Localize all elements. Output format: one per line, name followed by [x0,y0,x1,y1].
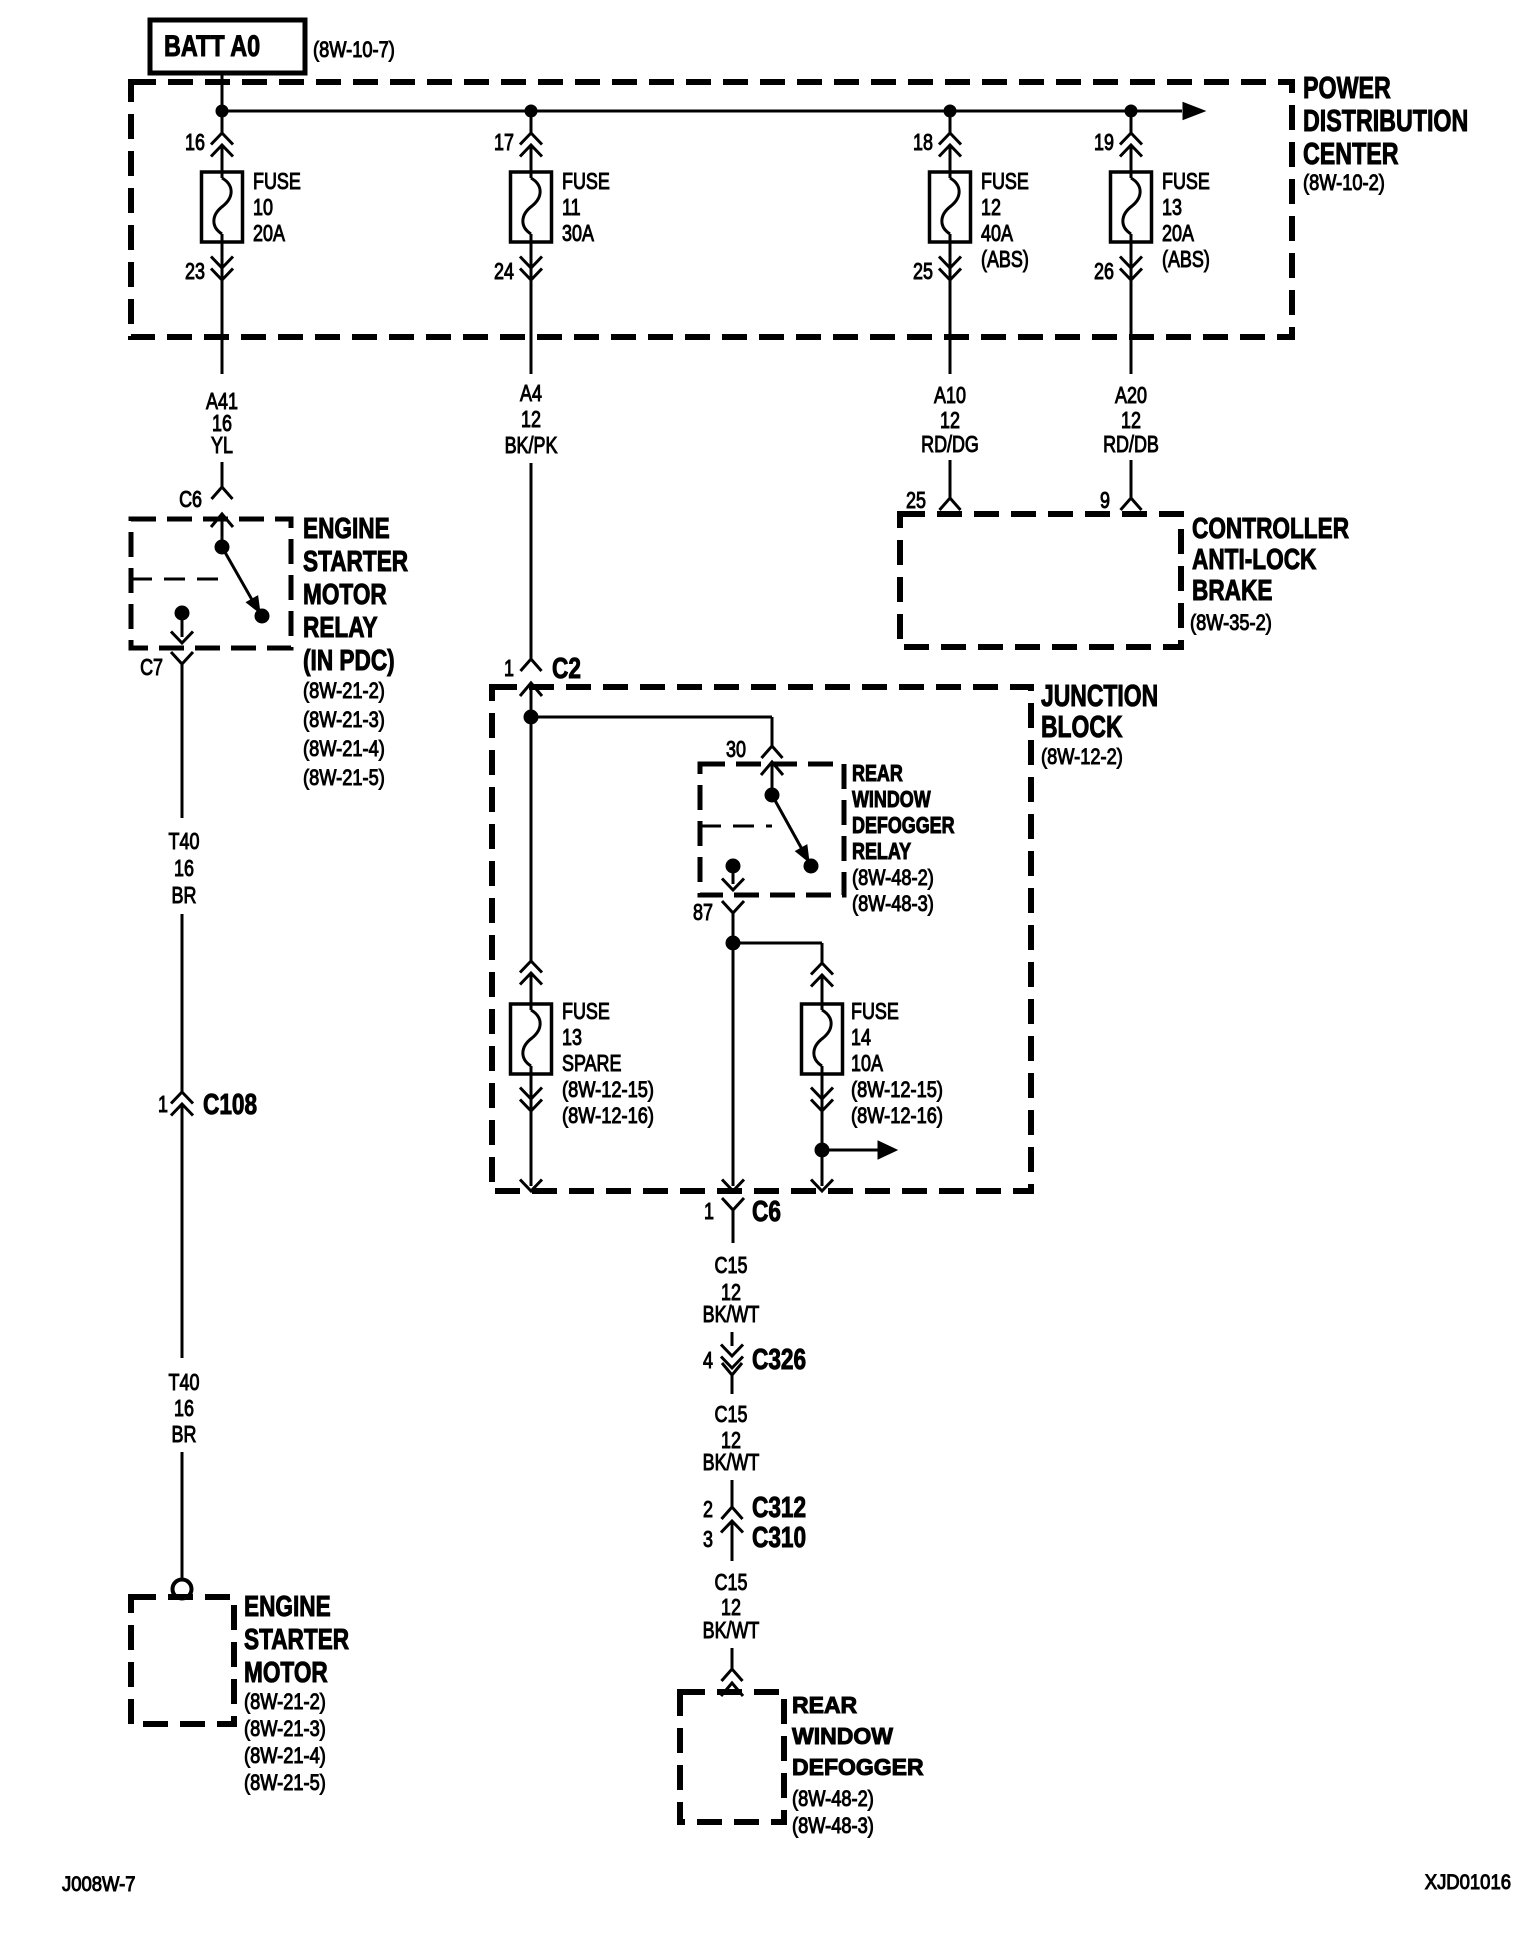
defogger relay switch arm [772,795,809,862]
svg-text:BK/WT: BK/WT [703,1302,760,1328]
svg-text:(8W-35-2): (8W-35-2) [1190,612,1272,636]
svg-text:(8W-12-15): (8W-12-15) [851,1079,943,1103]
fuse 13 (20A) column [1094,111,1210,374]
label engine starter motor relay [303,511,408,790]
svg-text:25: 25 [913,259,933,285]
junction block box [492,678,1158,1191]
wire label C15 12 BK/WT (2) [703,1402,760,1476]
svg-text:(8W-21-4): (8W-21-4) [303,738,385,762]
ring terminal at engine starter motor [173,1580,192,1599]
svg-text:DEFOGGER: DEFOGGER [852,813,955,839]
svg-text:BR: BR [172,1422,197,1448]
svg-text:(ABS): (ABS) [1162,247,1210,273]
svg-text:(8W-48-3): (8W-48-3) [792,1815,874,1839]
relay output wire to C7 [171,613,193,643]
label rear window defogger [792,1692,924,1838]
svg-text:(8W-48-3): (8W-48-3) [852,893,934,917]
svg-text:ENGINE: ENGINE [303,511,390,544]
wire label T40 16 BR (lower) [169,1370,200,1448]
svg-text:BRAKE: BRAKE [1192,573,1272,606]
wire arrow to other circuits [822,1141,897,1159]
svg-text:11: 11 [562,195,581,221]
power distribution center box [131,70,1468,337]
svg-text:BLOCK: BLOCK [1041,709,1123,744]
node fuse 14 output branch [815,1143,829,1157]
svg-text:30: 30 [726,737,746,763]
node BATT A0 [150,20,395,73]
svg-text:(8W-10-2): (8W-10-2) [1303,172,1385,196]
svg-text:C6: C6 [752,1194,781,1227]
svg-text:(ABS): (ABS) [981,247,1029,273]
connector C312 / C310 [703,1480,806,1561]
svg-text:REAR: REAR [852,761,903,787]
svg-text:20A: 20A [253,221,285,247]
svg-text:J008W-7: J008W-7 [62,1873,136,1896]
svg-text:18: 18 [913,130,933,156]
defogger relay contact node [804,859,818,873]
svg-text:BK/WT: BK/WT [703,1618,760,1644]
svg-text:1: 1 [158,1092,168,1118]
engine starter motor box [131,1597,234,1724]
svg-text:87: 87 [693,900,713,926]
svg-text:(8W-21-5): (8W-21-5) [303,767,385,791]
svg-text:14: 14 [851,1025,871,1051]
svg-text:MOTOR: MOTOR [303,577,387,610]
svg-text:XJD01016: XJD01016 [1425,1871,1511,1894]
svg-text:WINDOW: WINDOW [852,787,931,813]
svg-text:A20: A20 [1115,383,1147,409]
svg-text:BR: BR [172,883,197,909]
svg-text:(8W-48-2): (8W-48-2) [792,1788,874,1812]
svg-text:17: 17 [494,130,514,156]
defogger relay output node [726,859,740,873]
svg-text:C108: C108 [203,1087,257,1120]
svg-text:12: 12 [1121,408,1141,434]
svg-text:(8W-12-16): (8W-12-16) [851,1105,943,1129]
wire C2 branch to defogger relay pin 30 [531,717,772,746]
svg-text:T40: T40 [169,829,200,855]
connector rear window defogger [721,1648,743,1696]
svg-text:13: 13 [1162,195,1182,221]
svg-text:ENGINE: ENGINE [244,1589,331,1622]
svg-text:(8W-21-4): (8W-21-4) [244,1745,326,1769]
svg-text:24: 24 [494,259,514,285]
connector pin 87 [693,900,744,943]
fuse 13 spare column [511,717,552,1191]
svg-text:(8W-12-15): (8W-12-15) [562,1079,654,1103]
svg-text:C2: C2 [552,651,581,684]
svg-text:1: 1 [704,1199,714,1225]
svg-text:16: 16 [174,856,194,882]
svg-text:23: 23 [185,259,205,285]
wire BATT A0 to bus [221,73,224,111]
svg-text:RELAY: RELAY [303,610,378,643]
svg-text:C312: C312 [752,1490,806,1523]
svg-text:(8W-48-2): (8W-48-2) [852,867,934,891]
fuse 14 10A [802,963,843,1186]
node bus junction fuse 11 [525,105,537,117]
svg-text:19: 19 [1094,130,1114,156]
connector C108 [158,914,257,1358]
wire fuse 14 to junction block edge [811,1180,833,1192]
svg-text:WINDOW: WINDOW [792,1723,893,1749]
wire label A10 12 RD/DG [921,383,979,458]
node pin 87 branch [726,936,740,950]
svg-text:(8W-12-2): (8W-12-2) [1041,746,1123,770]
svg-text:SPARE: SPARE [562,1051,621,1077]
svg-text:12: 12 [940,408,960,434]
wire label C15 12 BK/WT (3) [703,1570,760,1644]
svg-text:C15: C15 [715,1402,748,1428]
svg-text:STARTER: STARTER [303,544,408,577]
svg-text:FUSE: FUSE [1162,169,1210,195]
connector C6 (engine starter motor relay) [179,462,233,542]
svg-text:A10: A10 [934,383,966,409]
svg-text:STARTER: STARTER [244,1622,349,1655]
wire battery bus [222,103,1205,120]
svg-text:(8W-10-7): (8W-10-7) [313,39,395,63]
svg-text:(IN PDC): (IN PDC) [303,643,395,676]
svg-text:C15: C15 [715,1253,748,1279]
fuse 10 (20A) column [185,111,301,374]
fuse 12 (40A) column [913,111,1029,374]
svg-text:(8W-21-3): (8W-21-3) [244,1718,326,1742]
svg-text:2: 2 [703,1497,713,1523]
svg-text:MOTOR: MOTOR [244,1655,328,1688]
svg-text:C326: C326 [752,1342,806,1375]
svg-text:A4: A4 [520,381,542,407]
svg-text:12: 12 [521,407,541,433]
defogger relay common node [765,788,779,802]
svg-text:(8W-12-16): (8W-12-16) [562,1105,654,1129]
svg-text:30A: 30A [562,221,594,247]
svg-text:12: 12 [981,195,1001,221]
wire branch to fuse 14 [733,943,822,963]
connector pin 30 defogger relay [726,737,783,791]
svg-text:20A: 20A [1162,221,1194,247]
wire label A20 12 RD/DB [1103,383,1159,458]
svg-text:RELAY: RELAY [852,839,911,865]
svg-text:1: 1 [504,656,514,682]
svg-text:ANTI-LOCK: ANTI-LOCK [1192,542,1317,575]
svg-text:C7: C7 [140,655,163,681]
svg-text:RD/DG: RD/DG [921,432,979,458]
svg-text:BATT A0: BATT A0 [164,29,260,62]
svg-text:(8W-21-2): (8W-21-2) [244,1691,326,1715]
svg-text:C15: C15 [715,1570,748,1596]
svg-text:25: 25 [906,488,926,514]
node bus junction fuse 12 [944,105,956,117]
svg-text:JUNCTION: JUNCTION [1041,678,1158,713]
node C2 branch [524,710,538,724]
controller anti-lock brake box [900,511,1349,647]
svg-text:3: 3 [703,1527,713,1553]
svg-text:FUSE: FUSE [253,169,301,195]
wire to engine starter motor [181,1452,184,1580]
relay: rear window defogger relay box [700,764,844,895]
connector pin 9 controller [1100,460,1141,514]
svg-text:10A: 10A [851,1051,883,1077]
svg-text:CENTER: CENTER [1303,136,1399,171]
wire label T40 16 BR [169,829,200,909]
svg-text:10: 10 [253,195,273,221]
node bus junction fuse 13 [1125,105,1137,117]
connector C7 [140,652,193,818]
svg-text:T40: T40 [169,1370,200,1396]
svg-text:YL: YL [211,433,233,459]
svg-text:C310: C310 [752,1520,806,1553]
relay: engine starter motor relay box [131,519,291,648]
wire label A41 16 YL [206,389,238,459]
svg-text:(8W-21-3): (8W-21-3) [303,709,385,733]
relay output node [175,606,189,620]
svg-text:16: 16 [174,1396,194,1422]
svg-text:BK/WT: BK/WT [703,1450,760,1476]
svg-text:13: 13 [562,1025,582,1051]
svg-text:RD/DB: RD/DB [1103,432,1159,458]
svg-text:4: 4 [703,1348,713,1374]
svg-text:9: 9 [1100,488,1110,514]
svg-text:DISTRIBUTION: DISTRIBUTION [1303,103,1468,138]
defogger relay output wire to pin 87 [722,866,744,890]
connector C2 [504,463,581,712]
rear window defogger box [680,1692,784,1822]
connector C326 [703,1332,806,1394]
label fuse 13 spare [562,999,654,1129]
wire label A4 12 BK/PK [505,381,558,459]
svg-text:(8W-21-2): (8W-21-2) [303,680,385,704]
svg-text:40A: 40A [981,221,1013,247]
svg-text:BK/PK: BK/PK [505,433,558,459]
svg-text:16: 16 [185,130,205,156]
connector pin 25 controller [906,460,960,514]
node bus junction fuse 10 [216,105,228,117]
svg-text:FUSE: FUSE [562,169,610,195]
relay coil/common node [215,540,229,554]
fuse 11 (30A) column [494,111,610,374]
svg-text:REAR: REAR [792,1692,858,1718]
svg-text:12: 12 [721,1595,741,1621]
svg-text:FUSE: FUSE [981,169,1029,195]
svg-text:C6: C6 [179,487,202,513]
wire label C15 12 BK/WT [703,1253,760,1328]
svg-text:CONTROLLER: CONTROLLER [1192,511,1349,544]
label rear window defogger relay [852,761,955,917]
wire pin 87 to connector C6 [722,943,744,1191]
svg-text:(8W-21-5): (8W-21-5) [244,1772,326,1796]
svg-text:26: 26 [1094,259,1114,285]
label engine starter motor [244,1589,349,1795]
label fuse 14 [851,999,943,1129]
svg-text:DEFOGGER: DEFOGGER [792,1754,924,1780]
connector C6 (junction block output) [704,1194,781,1243]
svg-text:FUSE: FUSE [851,999,899,1025]
svg-text:FUSE: FUSE [562,999,610,1025]
relay contact node [255,609,269,623]
svg-text:POWER: POWER [1303,70,1391,105]
relay switch arm [222,547,260,613]
